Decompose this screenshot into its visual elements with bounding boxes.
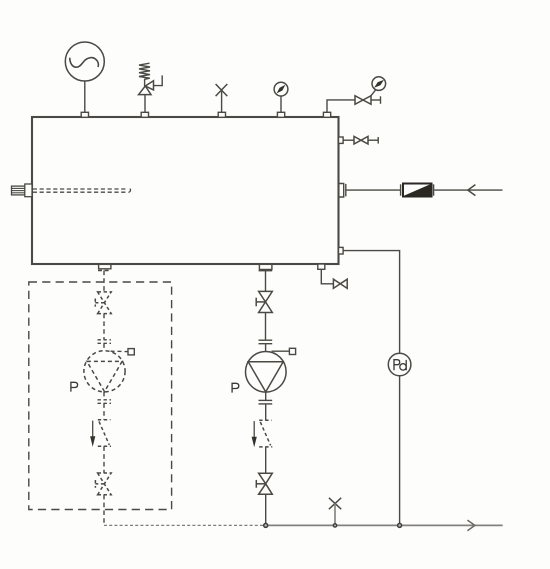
level gauge sine wave xyxy=(70,58,99,68)
dashed box (future pump unit) xyxy=(29,282,172,510)
pump P1 triangle xyxy=(248,362,283,392)
pipe to valve V4 xyxy=(265,271,267,292)
drain pipe elbow xyxy=(321,269,333,284)
spare connection X on header xyxy=(329,498,341,509)
nozzle N6 (right wall, vent valve) xyxy=(339,137,344,143)
nozzle N10 (tank bottom, main pump suction) xyxy=(259,265,272,270)
level gauge LG stem xyxy=(84,81,86,112)
flow arrow beside CV1 xyxy=(253,421,255,439)
spare pump P2 triangle (dashed) xyxy=(87,361,122,391)
dashed pipe to valve V6 xyxy=(103,271,105,292)
pipe to check valve xyxy=(265,404,267,420)
pump P1 circle xyxy=(245,352,286,393)
filter F1 black triangle xyxy=(404,184,431,196)
valve V5 handle xyxy=(256,483,265,485)
check valve CV1 (dashed) xyxy=(259,419,272,421)
safety valve spring xyxy=(139,63,150,86)
bottom header pipe xyxy=(266,524,503,526)
dashed pipe to check valve CV2 xyxy=(103,403,105,420)
check valve CV2 (dashed) xyxy=(98,419,111,421)
dashed pipe to valve V7 xyxy=(103,446,105,473)
flange pair above pump P2 (dashed) xyxy=(98,339,112,341)
nozzle N9 (tank bottom, drain) xyxy=(318,264,325,269)
safety valve PSV stem xyxy=(144,95,146,113)
filter F1 body xyxy=(403,184,432,197)
pump P2 vent connection + square xyxy=(111,350,129,352)
junction node J2 xyxy=(398,523,402,527)
drain valve V3 bowtie xyxy=(333,279,340,288)
level gauge LG circle xyxy=(65,42,104,81)
vent valve end cap xyxy=(368,139,378,141)
isolation valve V4 (vertical bowtie) xyxy=(259,291,273,302)
nozzle N4 (top, pressure gauge) xyxy=(277,112,284,117)
dashed bottom header (spare) xyxy=(104,524,266,526)
Pd sensor circle xyxy=(388,353,411,376)
valve V4 handle xyxy=(256,301,265,303)
safety valve body up-triangle xyxy=(139,86,151,95)
pipe to Pd line xyxy=(343,251,400,354)
flow arrow beside CV2 xyxy=(92,421,94,439)
spare valve V6 (dashed vertical bowtie) xyxy=(98,292,112,303)
feed flow arrow (pointing left) xyxy=(468,185,476,196)
pump P2 label xyxy=(71,382,78,391)
spare pump P2 circle (dashed) xyxy=(84,351,125,392)
spare connection stem xyxy=(221,90,223,112)
heater plug (outside left wall) xyxy=(12,186,26,195)
pipe to gauge valve xyxy=(327,100,355,112)
vent valve pipe xyxy=(343,139,354,141)
flange pair below pump P2 (dashed) xyxy=(103,392,105,400)
heater element (dashed, inside tank) xyxy=(33,188,128,190)
pipe to pump flange xyxy=(265,313,267,341)
nozzle N8 (right wall, lower outlet) xyxy=(339,247,344,254)
valve V6 handle (dashed) xyxy=(95,302,104,304)
nozzle N11 (tank bottom, spare pump suction) xyxy=(99,265,111,269)
pipe to valve V5 xyxy=(265,447,267,473)
flange pair below pump P1 xyxy=(265,392,267,400)
pipe to bottom header xyxy=(265,494,267,525)
dashed pipe to spare pump xyxy=(103,314,105,340)
flange pair above pump P1 xyxy=(259,339,273,341)
safety valve body right-triangle xyxy=(145,81,153,90)
pressure gauge PI2 circle xyxy=(372,77,386,91)
feed pipe to filter xyxy=(346,189,400,191)
junction node J1 xyxy=(264,523,268,527)
vent valve V2 bowtie xyxy=(354,136,361,144)
nozzle N1 (top, level gauge) xyxy=(81,112,88,117)
nozzle N3 (top, spare X) xyxy=(218,112,225,117)
junction node J3 (at X stem) xyxy=(333,524,336,527)
pressure gauge PI1 circle xyxy=(274,82,288,96)
pump P1 label xyxy=(232,383,239,392)
pressure gauge PI1 stem xyxy=(280,96,282,112)
filter F1 left tick xyxy=(400,184,402,195)
pressure gauge PI1 needle xyxy=(277,85,286,94)
spare connection X mark xyxy=(216,84,228,96)
nozzle N5 (top right, to gauge valve) xyxy=(323,112,330,117)
filter F1 right tick xyxy=(433,184,435,195)
nozzle N7 (right wall, feed with flange) xyxy=(338,184,344,198)
feed pipe inlet xyxy=(434,189,502,191)
safety valve outlet elbow xyxy=(154,75,163,85)
Pd label xyxy=(394,360,400,371)
pressure gauge PI2 needle xyxy=(374,80,384,88)
heater flange at wall xyxy=(25,184,32,197)
gauge valve V1 bowtie xyxy=(355,96,363,105)
gauge valve outlet + end cap xyxy=(371,99,381,101)
valve V7 handle (dashed) xyxy=(95,483,104,485)
tank T1 xyxy=(32,117,339,264)
isolation valve V5 (vertical bowtie) xyxy=(259,473,273,484)
nozzle N2 (top, safety valve) xyxy=(141,112,148,117)
Pd sensor line down xyxy=(399,376,401,526)
spare valve V7 (dashed vertical bowtie) xyxy=(98,473,112,484)
dashed pipe to bottom header xyxy=(103,495,105,526)
pressure gauge PI2 connection xyxy=(371,90,376,97)
outlet flow arrow (pointing right) xyxy=(467,520,475,531)
pump P1 vent connection + square xyxy=(272,350,290,352)
